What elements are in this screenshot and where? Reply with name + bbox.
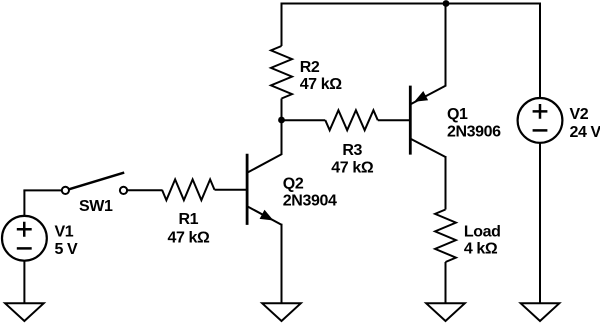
Q1 emitter arrow: [414, 91, 428, 102]
switch SW1 blade: [69, 173, 124, 190]
resistor Load: [435, 210, 456, 262]
svg-text:5 V: 5 V: [55, 241, 79, 258]
wire V1 to switch: [24, 190, 61, 191]
svg-text:R3: R3: [342, 142, 362, 159]
resistor R3: [325, 110, 377, 130]
svg-text:R1: R1: [178, 211, 198, 228]
wire V1 top lead: [23, 190, 25, 216]
wire top rail: [281, 3, 541, 5]
ground below V2: [521, 303, 560, 321]
wire Q1 emitter up to rail: [445, 4, 447, 87]
wire Load bottom: [445, 262, 447, 303]
svg-text:SW1: SW1: [79, 198, 113, 215]
V1 minus sign: [17, 247, 32, 250]
wire V1 bottom lead: [23, 261, 25, 303]
transistor Q1 base bar: [409, 86, 412, 155]
Q2 emitter arrow: [260, 210, 274, 221]
resistor R1: [162, 179, 214, 200]
resistor R2: [271, 46, 292, 98]
svg-text:47 kΩ: 47 kΩ: [331, 160, 374, 177]
svg-text:4 kΩ: 4 kΩ: [464, 240, 498, 257]
svg-text:Q1: Q1: [447, 106, 468, 123]
ground below V1: [5, 303, 44, 321]
V2 minus sign: [533, 129, 548, 132]
voltage source V2: [518, 98, 563, 143]
wire V2 bottom: [539, 144, 541, 304]
svg-text:V1: V1: [55, 223, 74, 240]
svg-text:Q2: Q2: [283, 176, 304, 193]
svg-text:V2: V2: [570, 106, 589, 123]
node dot base of R2: [278, 117, 285, 124]
svg-text:R2: R2: [300, 59, 320, 76]
wire V2 top lead: [539, 3, 541, 99]
wire Q2 emitter down: [281, 224, 283, 303]
wire switch to R1: [128, 189, 163, 191]
svg-text:24 V: 24 V: [570, 124, 600, 141]
Q1 collector diagonal: [411, 139, 446, 157]
switch SW1 left terminal: [62, 187, 69, 194]
wire Q1 collector down to Load: [445, 156, 447, 210]
svg-text:47 kΩ: 47 kΩ: [168, 230, 211, 247]
Q2 emitter diagonal: [248, 207, 282, 225]
voltage source V1: [2, 216, 47, 261]
ground below Load: [426, 303, 465, 321]
junction dot top rail: [443, 0, 450, 7]
svg-text:Load: Load: [464, 224, 501, 241]
ground below Q2: [262, 303, 301, 321]
wire R2 top lead: [281, 4, 283, 47]
svg-text:2N3904: 2N3904: [283, 193, 337, 210]
transistor Q2 base bar: [246, 154, 249, 225]
V1 plus sign: [17, 222, 32, 237]
wire node to R3: [282, 119, 326, 121]
V2 plus sign: [533, 104, 548, 119]
wire R3 to Q1 base: [378, 119, 410, 121]
Q2 collector wire up to node: [281, 120, 283, 155]
wire R2 bottom lead: [281, 99, 283, 121]
switch SW1 right terminal: [120, 187, 127, 194]
svg-text:47 kΩ: 47 kΩ: [300, 76, 343, 93]
Q2 collector diagonal: [248, 154, 282, 172]
svg-text:2N3906: 2N3906: [447, 124, 501, 141]
wire R1 to Q2 base: [215, 189, 247, 191]
Q1 emitter diagonal: [411, 86, 446, 104]
